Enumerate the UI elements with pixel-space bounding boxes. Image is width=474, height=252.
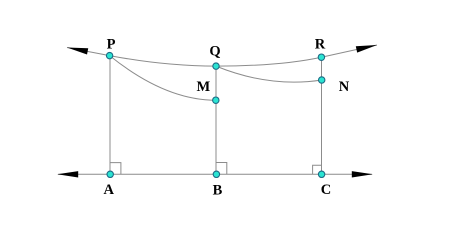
segment QB bbox=[215, 66, 217, 174]
arc Q to N bbox=[216, 66, 322, 82]
segment RC bbox=[321, 57, 323, 174]
point P bbox=[106, 52, 112, 58]
svg-text:Q: Q bbox=[209, 44, 220, 60]
right angle mark at B bbox=[216, 163, 227, 175]
point N bbox=[319, 77, 325, 83]
svg-text:A: A bbox=[103, 182, 114, 198]
segment PA bbox=[109, 56, 111, 175]
arc P to M bbox=[110, 56, 216, 101]
arrowhead top-right bbox=[356, 42, 378, 53]
point Q bbox=[213, 63, 219, 69]
svg-text:M: M bbox=[196, 79, 210, 95]
svg-text:R: R bbox=[315, 36, 326, 52]
right angle mark at C bbox=[313, 165, 322, 174]
point M bbox=[213, 97, 219, 103]
arrowhead bottom-right bbox=[352, 171, 373, 177]
point C bbox=[318, 171, 324, 177]
svg-text:B: B bbox=[213, 182, 223, 198]
line PQR (top transversal curve) bbox=[67, 45, 377, 66]
right angle mark at A bbox=[110, 163, 121, 175]
point A bbox=[107, 171, 113, 177]
point B bbox=[213, 171, 219, 177]
svg-text:P: P bbox=[107, 37, 116, 53]
arrowhead top-left bbox=[66, 44, 88, 54]
svg-text:N: N bbox=[339, 79, 350, 95]
arrowhead bottom-left bbox=[57, 171, 78, 177]
point R bbox=[318, 54, 324, 60]
line ABC (bottom horizontal line) bbox=[58, 173, 372, 175]
svg-text:C: C bbox=[321, 182, 331, 198]
